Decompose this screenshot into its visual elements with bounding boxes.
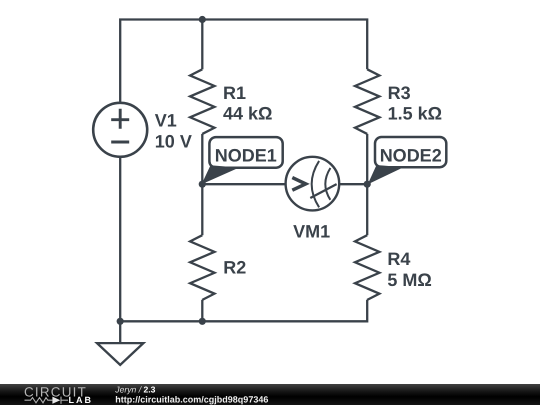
logo resistor squiggle and diode xyxy=(25,397,69,404)
svg-text:R3: R3 xyxy=(388,83,411,103)
label R1 value xyxy=(223,83,272,124)
label R3 value xyxy=(388,83,442,124)
svg-text:LAB: LAB xyxy=(69,395,94,405)
label R4 value xyxy=(387,249,431,290)
voltage source V1 xyxy=(93,103,147,157)
svg-text:VM1: VM1 xyxy=(293,221,330,241)
wire voltmeter to node2 xyxy=(339,183,367,185)
wire R1 bottom lead xyxy=(201,134,203,184)
svg-text:R2: R2 xyxy=(223,258,246,278)
wire bottom rail (to R4 bottom lead) xyxy=(120,300,367,322)
node junction dot bottom R2 xyxy=(199,318,206,325)
voltmeter U1 (VM1 symbol) xyxy=(286,157,340,211)
svg-text:V1: V1 xyxy=(155,111,177,131)
wire R4 top lead xyxy=(366,184,368,235)
node B callout NODE2 xyxy=(368,137,447,184)
node junction dot NODE1 xyxy=(199,181,206,188)
svg-text:NODE2: NODE2 xyxy=(380,145,442,165)
wire node1 to voltmeter xyxy=(202,183,286,185)
label V1 value xyxy=(155,111,192,152)
wire R3 bottom lead xyxy=(366,134,368,184)
wire V1 bottom lead xyxy=(119,158,121,321)
footer bar xyxy=(0,384,540,405)
node junction dot ground xyxy=(117,318,124,325)
svg-text:R4: R4 xyxy=(387,249,410,269)
svg-text:R1: R1 xyxy=(223,83,246,103)
ground xyxy=(97,343,143,365)
svg-text:1.5 kΩ: 1.5 kΩ xyxy=(388,104,442,124)
svg-text:NODE1: NODE1 xyxy=(215,146,277,166)
node A callout NODE1 xyxy=(202,137,283,184)
wire top-left rail (V1 top to top rail to node) xyxy=(120,20,202,102)
wire ground stem xyxy=(119,321,121,343)
node junction dot top xyxy=(199,16,206,23)
svg-text:44 kΩ: 44 kΩ xyxy=(223,104,272,124)
resistor R2 xyxy=(190,235,214,300)
node junction dot NODE2 xyxy=(364,181,371,188)
wire R2 top lead xyxy=(201,184,203,235)
resistor R3 xyxy=(355,69,379,134)
svg-text:Jeryn / 2.3: Jeryn / 2.3 xyxy=(114,385,155,395)
resistor R4 xyxy=(355,235,379,300)
wire R1 top lead xyxy=(201,20,203,70)
wire top-right rail (node to corner to R3 top lead) xyxy=(202,20,367,70)
svg-text:http://circuitlab.com/cgjbd98q: http://circuitlab.com/cgjbd98q97346 xyxy=(115,394,268,404)
svg-text:5 MΩ: 5 MΩ xyxy=(387,270,431,290)
wire R2 bottom lead xyxy=(201,300,203,322)
svg-text:10 V: 10 V xyxy=(155,131,192,151)
resistor R1 xyxy=(190,69,214,134)
